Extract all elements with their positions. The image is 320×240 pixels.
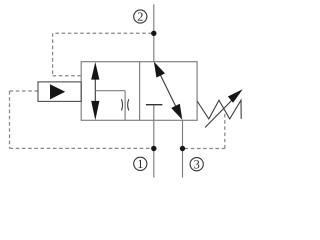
drain line dashed from port 3 to right [185,148,225,150]
valve body divider [139,62,141,121]
orifice left arc [121,99,122,110]
pilot actuator triangle [50,84,65,99]
left position: branch vertical line [124,91,126,121]
pilot actuator box [38,82,81,102]
junction dot on port 1 [151,146,156,151]
left position: branch horizontal line [95,90,125,92]
right position: diagonal flow line [157,67,180,114]
port 3 digit [194,160,199,168]
right position: top arrowhead [154,62,165,78]
wire port 2 line [153,4,155,61]
orifice right arc [128,99,129,110]
pilot line dashed bottom run to port 1 [10,147,153,149]
valve body outer box [81,62,197,121]
right position: blocked port T bar [146,104,163,106]
port 1 digit [138,160,142,168]
adjustment arrowhead [228,89,243,102]
adjustment arrow shaft [205,96,236,128]
right position: bottom arrowhead [171,104,182,120]
port 3 label circle [190,158,203,171]
port 2 label circle [134,10,147,23]
pilot line dashed vertical left of top [52,33,54,75]
pilot line dashed from pilot box to far left [10,90,39,92]
pilot line dashed from port 2 (horizontal top) [53,32,152,34]
port 1 label circle [134,157,147,170]
adjustable spring zigzag [197,100,241,119]
port 2 digit [138,12,143,20]
pilot line dashed into left side of valve box [53,75,82,77]
left position: up arrowhead [91,62,99,80]
wire port 1 line [153,105,155,178]
pilot line dashed far-left vertical [9,91,11,148]
drain line dashed vertical up to spring [224,112,226,149]
junction dot on port 2 [151,31,156,36]
wire port 3 line [182,120,184,178]
left position: double-headed vertical arrow shaft [94,76,96,104]
left position: down arrowhead [91,101,99,120]
junction dot on port 3 [180,146,185,151]
